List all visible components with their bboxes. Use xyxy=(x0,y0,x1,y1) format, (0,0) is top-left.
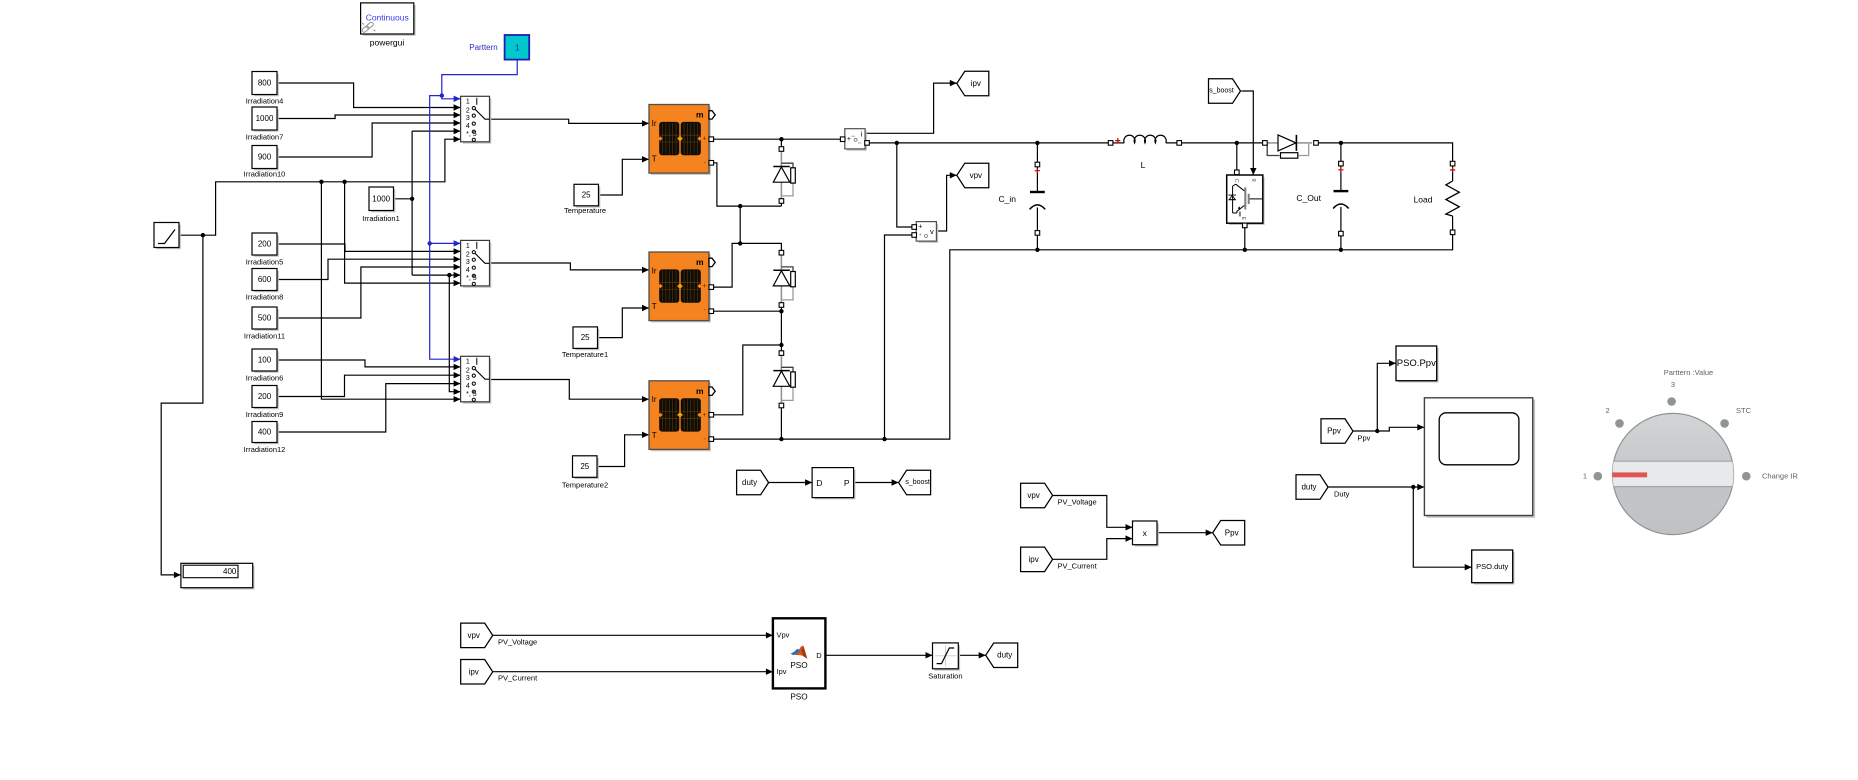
svg-text:100: 100 xyxy=(258,356,272,365)
svg-text:Irradiation1: Irradiation1 xyxy=(362,214,400,223)
svg-text:P: P xyxy=(844,478,850,488)
svg-text:Continuous: Continuous xyxy=(366,12,409,22)
svg-text:Ir: Ir xyxy=(652,395,657,404)
svg-text:200: 200 xyxy=(258,240,272,249)
svg-text:L: L xyxy=(1141,160,1146,170)
svg-text:duty: duty xyxy=(997,651,1012,660)
svg-text:D: D xyxy=(816,651,822,660)
svg-text:25: 25 xyxy=(582,191,591,200)
svg-text:Change IR: Change IR xyxy=(1762,472,1798,481)
svg-text:PV_Current: PV_Current xyxy=(498,674,538,683)
svg-text:1: 1 xyxy=(515,42,520,52)
svg-text:Irradiation8: Irradiation8 xyxy=(246,293,284,302)
svg-text:ipv: ipv xyxy=(971,79,981,88)
svg-text:PV_Voltage: PV_Voltage xyxy=(1058,497,1097,506)
svg-text:PSO.duty: PSO.duty xyxy=(1476,562,1508,571)
svg-text:C: C xyxy=(1233,179,1239,183)
svg-text:500: 500 xyxy=(258,314,272,323)
svg-text:1: 1 xyxy=(466,359,470,366)
svg-text:4: 4 xyxy=(466,267,470,274)
svg-text:600: 600 xyxy=(258,275,272,284)
svg-text:2: 2 xyxy=(1606,406,1610,415)
svg-text:+: + xyxy=(702,283,706,290)
svg-text:vpv: vpv xyxy=(1027,491,1039,500)
svg-text:PSO: PSO xyxy=(790,693,807,702)
svg-text:Temperature2: Temperature2 xyxy=(562,481,608,490)
svg-text:Irradiation12: Irradiation12 xyxy=(244,445,286,454)
svg-text:+: + xyxy=(918,224,922,231)
svg-text:4: 4 xyxy=(466,383,470,390)
svg-text:m: m xyxy=(696,257,704,267)
svg-text:Ppv: Ppv xyxy=(1327,427,1341,436)
svg-text:1: 1 xyxy=(466,243,470,250)
svg-text:T: T xyxy=(652,302,657,311)
svg-text:Irradiation9: Irradiation9 xyxy=(246,410,284,419)
svg-text:T: T xyxy=(652,155,657,164)
svg-text:25: 25 xyxy=(580,462,589,471)
svg-text:Parttern: Parttern xyxy=(469,43,497,52)
svg-text:4: 4 xyxy=(466,123,470,130)
svg-text:3: 3 xyxy=(1671,380,1675,389)
svg-text:Irradiation6: Irradiation6 xyxy=(246,374,284,383)
svg-text:STC: STC xyxy=(1736,406,1752,415)
svg-text:3: 3 xyxy=(466,375,470,382)
svg-text:Vpv: Vpv xyxy=(777,631,790,640)
svg-text:Ir: Ir xyxy=(652,266,657,275)
svg-text:powergui: powergui xyxy=(370,38,405,48)
svg-text:ipv: ipv xyxy=(1028,555,1038,564)
svg-text:duty: duty xyxy=(742,478,757,487)
svg-text:Irradiation11: Irradiation11 xyxy=(244,332,285,341)
svg-text:T: T xyxy=(652,431,657,440)
svg-text:900: 900 xyxy=(258,153,272,162)
svg-text:Saturation: Saturation xyxy=(928,672,962,681)
svg-text:x: x xyxy=(1143,528,1148,538)
svg-text:3: 3 xyxy=(466,115,470,122)
svg-text:+: + xyxy=(847,136,851,143)
svg-text:PSO: PSO xyxy=(790,661,807,670)
svg-text:+: + xyxy=(702,412,706,419)
svg-text:s_boost: s_boost xyxy=(1209,88,1234,95)
svg-text:m: m xyxy=(696,386,704,396)
svg-text:1: 1 xyxy=(466,99,470,106)
svg-text:m: m xyxy=(696,110,704,120)
svg-text:C_Out: C_Out xyxy=(1296,193,1321,203)
svg-text:800: 800 xyxy=(258,79,272,88)
svg-text:25: 25 xyxy=(581,333,590,342)
svg-text:Parttern :Value: Parttern :Value xyxy=(1664,368,1713,377)
svg-text:400: 400 xyxy=(258,428,272,437)
svg-text:1: 1 xyxy=(1583,472,1587,481)
svg-text:Load: Load xyxy=(1414,194,1433,204)
svg-text:+: + xyxy=(702,136,706,143)
svg-text:Ppv: Ppv xyxy=(1225,528,1239,537)
svg-text:PV_Voltage: PV_Voltage xyxy=(498,637,537,646)
svg-text:Temperature: Temperature xyxy=(564,206,606,215)
svg-text:Ipv: Ipv xyxy=(777,667,787,676)
svg-text:vpv: vpv xyxy=(970,171,982,180)
svg-text:E: E xyxy=(1240,217,1246,221)
svg-text:PV_Current: PV_Current xyxy=(1058,562,1098,571)
svg-text:ipv: ipv xyxy=(469,667,479,676)
svg-text:duty: duty xyxy=(1301,483,1316,492)
svg-text:2: 2 xyxy=(466,367,470,374)
svg-text:Irradiation5: Irradiation5 xyxy=(246,258,284,267)
svg-text:200: 200 xyxy=(258,392,272,401)
svg-text:2: 2 xyxy=(466,107,470,114)
svg-text:400: 400 xyxy=(223,567,237,576)
svg-text:s_boost: s_boost xyxy=(905,479,930,486)
svg-text:vpv: vpv xyxy=(467,631,479,640)
svg-text:v: v xyxy=(930,227,934,236)
svg-text:D: D xyxy=(816,478,822,488)
svg-text:Ppv: Ppv xyxy=(1358,434,1371,443)
svg-text:Irradiation10: Irradiation10 xyxy=(244,170,286,179)
svg-text:1000: 1000 xyxy=(256,114,274,123)
svg-text:1000: 1000 xyxy=(372,194,390,203)
svg-text:PSO.Ppv: PSO.Ppv xyxy=(1397,358,1436,369)
svg-text:3: 3 xyxy=(466,259,470,266)
svg-text:2: 2 xyxy=(466,252,470,259)
svg-text:Ir: Ir xyxy=(652,119,657,128)
svg-text:g: g xyxy=(1251,178,1257,181)
svg-text:Irradiation7: Irradiation7 xyxy=(246,133,284,142)
svg-text:Duty: Duty xyxy=(1334,489,1350,498)
svg-text:Irradiation4: Irradiation4 xyxy=(246,97,284,106)
svg-text:C_in: C_in xyxy=(999,194,1017,204)
svg-text:Temperature1: Temperature1 xyxy=(562,350,608,359)
